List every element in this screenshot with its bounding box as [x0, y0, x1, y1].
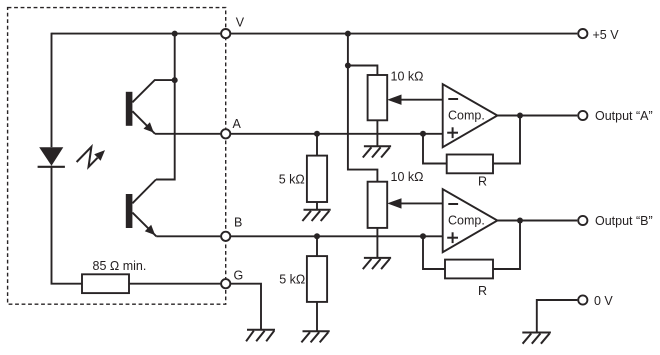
resistor R2 5k	[307, 256, 327, 302]
svg-text:Output “B”: Output “B”	[595, 214, 653, 228]
svg-text:85 Ω min.: 85 Ω min.	[93, 259, 147, 273]
svg-text:10 kΩ: 10 kΩ	[391, 70, 424, 84]
svg-text:10 kΩ: 10 kΩ	[391, 170, 424, 184]
wire Q1 emitter to terminal A	[155, 133, 220, 135]
wire B line from terminal B to comparator	[231, 235, 443, 237]
ground RV1	[363, 146, 391, 157]
terminal Output A	[578, 111, 587, 120]
svg-text:Comp.: Comp.	[448, 214, 485, 228]
op-amp U1 comparator A	[443, 84, 498, 147]
terminal +5V	[578, 29, 587, 38]
terminal G	[221, 279, 230, 288]
wire LED anode from rail	[51, 33, 53, 148]
node junction A line / 5k	[314, 131, 320, 137]
potentiometer RV1 10k (channel A)	[368, 75, 388, 120]
wire A line from terminal A to comparator	[231, 133, 443, 135]
op-amp U2 comparator B	[443, 189, 498, 252]
resistor R feedback B	[445, 260, 493, 279]
wire Q2 emitter to terminal B	[156, 235, 220, 237]
terminal V	[221, 29, 230, 38]
node junction output A / feedback	[517, 113, 523, 119]
encoder dashed box	[8, 8, 226, 305]
ground encoder	[246, 330, 275, 342]
wire pot feed from rail	[348, 34, 378, 182]
node junction A line / feedback	[420, 131, 426, 137]
wire RV2 bottom to ground	[376, 228, 378, 258]
node junction output B / feedback	[517, 218, 523, 224]
svg-text:Comp.: Comp.	[448, 109, 485, 123]
wire comparator A output	[497, 115, 577, 117]
svg-text:5 kΩ: 5 kΩ	[279, 273, 305, 287]
wiper arrow RV1	[387, 95, 401, 105]
ground 0V	[522, 333, 551, 344]
wire B line to 5k R2	[316, 236, 318, 256]
svg-text:Output “A”: Output “A”	[595, 109, 653, 123]
wire branch to pot RV1 top	[348, 66, 378, 76]
wire feedback B right leg	[493, 221, 520, 270]
wire 85 ohm to terminal G	[129, 283, 220, 285]
terminal Output B	[578, 216, 587, 225]
wire comparator B output	[497, 220, 577, 222]
wire RV2 wiper to comparator minus	[401, 202, 443, 204]
phototransistor Q2	[126, 180, 157, 237]
wire feedback B left leg	[423, 236, 445, 269]
ground R1	[302, 210, 330, 221]
resistor R feedback A	[447, 155, 493, 174]
wire R1 to ground	[316, 202, 318, 210]
svg-text:G: G	[234, 268, 244, 282]
wire feedback A left leg	[423, 134, 447, 164]
wire feedback A right leg	[493, 116, 520, 164]
node junction B line / 5k	[314, 233, 320, 239]
svg-text:5 kΩ: 5 kΩ	[279, 173, 305, 187]
wire 0V to ground	[537, 300, 578, 333]
svg-text:+5 V: +5 V	[593, 28, 620, 42]
resistor R1 5k	[307, 156, 327, 202]
wire terminal G to ground	[231, 284, 261, 330]
terminal A	[221, 129, 230, 138]
terminal 0V	[578, 295, 587, 304]
node junction on V rail at pot feed	[345, 31, 351, 37]
ground R2	[301, 331, 329, 342]
svg-text:A: A	[233, 117, 242, 131]
wire RV1 bottom to ground	[376, 120, 378, 146]
potentiometer RV2 10k (channel B)	[368, 182, 388, 228]
node junction B line / feedback	[420, 233, 426, 239]
wire R2 to ground	[316, 302, 318, 331]
phototransistor Q1	[126, 80, 175, 134]
svg-text:V: V	[236, 16, 245, 30]
wire A line to 5k R1	[316, 134, 318, 156]
wire collector feed from Q1 junction down to Q2	[156, 80, 175, 179]
LED D1	[38, 147, 65, 167]
node junction on V rail at collector feed	[172, 31, 178, 37]
wire V rail inside encoder	[52, 33, 221, 35]
wire LED cathode down and to 85 ohm resistor	[52, 166, 83, 284]
light emission arrow	[77, 147, 105, 167]
svg-text:B: B	[234, 215, 242, 229]
node junction pot feed branch	[345, 63, 351, 69]
resistor 85 ohm	[82, 274, 129, 293]
ground RV2	[363, 258, 391, 269]
node junction Q1 collector	[172, 77, 178, 83]
svg-text:0 V: 0 V	[594, 294, 613, 308]
svg-text:R: R	[478, 175, 487, 189]
svg-text:R: R	[478, 284, 487, 298]
wire collector feed from rail to Q1	[174, 34, 176, 81]
wire RV1 wiper to comparator minus	[401, 99, 443, 101]
wire V rail outside to +5V	[231, 33, 578, 35]
wiper arrow RV2	[387, 198, 401, 208]
terminal B	[221, 232, 230, 241]
